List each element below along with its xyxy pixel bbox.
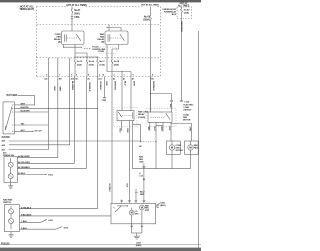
wire: row L3 horizontal to x48.5 — [9, 149, 49, 151]
relay 2 label (left) — [97, 33, 104, 44]
svg-text:(RAD): (RAD) — [136, 244, 142, 247]
wire: switch2 ground lead — [10, 232, 12, 235]
right relay: condenser fan relay box — [148, 112, 172, 122]
fuse D value label — [114, 61, 120, 66]
relay 1 output: left pin to dashed reference arrow — [64, 45, 82, 49]
inline connector terminal (right, end of x181.5 wire) — [180, 100, 183, 103]
svg-text:WHT/YEL: WHT/YEL — [113, 81, 115, 91]
wire: stub between contacts — [10, 167, 12, 174]
junction dot at fuse B — [86, 56, 87, 57]
svg-text:(20A): (20A) — [114, 63, 119, 66]
G301 ground pigtail right of motor box — [156, 203, 160, 207]
svg-text:C BLK: C BLK — [21, 221, 28, 223]
pressure switch contact circle 2 — [8, 174, 13, 179]
wire: battery feed loop into ignition switch — [14, 96, 34, 105]
terminal dot at end of row y131.4 — [32, 131, 33, 132]
fuse 3 inside small box — [181, 7, 183, 19]
top border bar — [0, 0, 201, 2]
connector ticks at x136 — [135, 200, 138, 203]
fuse 2 labels — [143, 15, 150, 21]
junction dot at fuse A — [74, 56, 75, 57]
fan switch contact circle 1 — [9, 209, 14, 214]
fuse B at x87 — [86, 59, 88, 68]
box corner label — [157, 205, 159, 209]
svg-text:A6 YEL/GRN: A6 YEL/GRN — [18, 161, 30, 164]
svg-text:(40A): (40A) — [74, 13, 80, 16]
fuse C at x97.5 — [97, 59, 99, 68]
label: condenser fan motor — [175, 145, 183, 152]
wire: switch2 row A to x97.5 — [19, 208, 97, 210]
wire: feed branch from fuse 2 wire — [151, 93, 172, 95]
svg-text:FAN: FAN — [194, 146, 198, 149]
wire: stub below fan switch contact 2 — [10, 224, 12, 230]
svg-text:LOAD: LOAD — [184, 106, 190, 109]
fuse C value label — [99, 61, 105, 66]
right relay label (right side) — [183, 114, 191, 121]
svg-text:M: M — [189, 146, 192, 150]
label: to A/C compressor — [92, 45, 99, 51]
svg-text:A17: A17 — [59, 78, 62, 81]
wire: branch drop to connector terminal — [171, 94, 173, 101]
wire from top to fuse 1 — [71, 7, 73, 10]
svg-text:GRN: GRN — [105, 81, 107, 86]
wire: ground lead below box at x141.9 — [141, 224, 143, 233]
wire: relay 2 left pin to distribution bus — [107, 45, 131, 72]
svg-text:A4 BLU/RED: A4 BLU/RED — [18, 155, 30, 158]
wire: stub above contact 1 — [10, 158, 12, 162]
wire: switch1 row A1 ground stub — [17, 174, 46, 176]
svg-text:C605: C605 — [139, 161, 144, 163]
wire: branch over to radiator fan motor — [171, 124, 192, 142]
radiator fan switch label — [3, 199, 13, 205]
ignition switch row labels — [21, 103, 30, 132]
condenser fan motor circle M1 — [169, 145, 174, 150]
svg-text:No.16: No.16 — [89, 61, 95, 63]
wire: switch2 row D with ground pigtail — [19, 227, 62, 230]
svg-text:A YEL/BLK: A YEL/BLK — [21, 206, 32, 209]
svg-text:A: A — [152, 74, 154, 77]
radiator fan motor unit box (right) — [185, 141, 199, 154]
svg-text:No.17: No.17 — [99, 61, 105, 63]
wire: YEL/BLK vertical at x97.5 to fan switch — [97, 68, 99, 209]
dashed off-page reference wire — [84, 47, 92, 49]
svg-text:A/C: A/C — [3, 152, 7, 155]
svg-text:BLU: BLU — [153, 127, 155, 132]
svg-text:A19: A19 — [2, 144, 6, 147]
wire: bus drop to fuse C — [97, 57, 99, 59]
wire: BLK/YEL vertical at x48.5 — [48, 58, 50, 150]
wire below small box — [181, 19, 183, 102]
big dashed under-hood fuse/relay box — [37, 7, 161, 77]
svg-text:(10A): (10A) — [77, 63, 82, 66]
svg-text:RELAY: RELAY — [97, 38, 104, 41]
svg-text:YEL/BLK: YEL/BLK — [99, 81, 101, 90]
fuse 1 labels — [74, 9, 81, 19]
connector tick C561 (lower) — [71, 18, 73, 20]
center relay label (right) — [138, 111, 149, 119]
wire below fuse 2 down into box area — [150, 20, 152, 112]
wire: switch2 row B to fan motor box — [19, 215, 111, 217]
wire: terminal into ELD relay top — [171, 102, 173, 112]
relay 1 label (left) — [54, 34, 61, 44]
wire: radiator fan feed at x143.9 — [143, 164, 145, 204]
wire: GRN/BLK vertical at x86.5 — [86, 77, 88, 169]
bottom hairline — [0, 244, 201, 246]
svg-text:2: 2 — [114, 75, 115, 77]
label: G301 — [160, 202, 166, 207]
svg-text:G101: G101 — [64, 227, 70, 229]
wire: relay 1 center pin down to fuse A — [74, 45, 76, 59]
radiator fan motor circle (right) — [188, 145, 193, 150]
relay 2 switch arm — [120, 35, 124, 41]
svg-text:(7.5A): (7.5A) — [99, 63, 105, 66]
wire: bus drop at x122 — [121, 72, 123, 77]
svg-text:SPD: SPD — [135, 214, 139, 216]
pressure switch contact circle 1 — [8, 162, 13, 167]
svg-text:FAN: FAN — [100, 35, 105, 38]
svg-text:A5: A5 — [75, 78, 77, 81]
svg-text:02: 02 — [157, 207, 159, 209]
svg-text:WHT: WHT — [59, 87, 61, 92]
wire: internal bus in motor box — [117, 205, 128, 207]
relay 1 switch arm — [77, 35, 81, 41]
svg-text:B BLU/BLK: B BLU/BLK — [21, 215, 32, 217]
wire: switch1 row A2 to x86.5 — [17, 167, 86, 169]
dashed enclosure around center relay — [114, 107, 138, 127]
wire: motor M2 return to box bottom — [131, 215, 133, 224]
relay 2 internal dashed link — [110, 37, 120, 39]
wire below fuse 1 with connector ticks — [71, 13, 73, 31]
motor circle M3 (upper right) — [140, 205, 145, 210]
A/C pressure switch label — [3, 152, 15, 158]
junction dot on fuse 1 feed — [72, 8, 73, 9]
ignition row y125 — [14, 124, 48, 126]
right relay internal dashed link — [151, 116, 166, 118]
junction dot at fuse C — [97, 56, 98, 57]
svg-text:DETECT: DETECT — [184, 110, 193, 112]
wire: branch to fuse B — [75, 53, 87, 59]
svg-text:ST CUT: ST CUT — [35, 130, 43, 132]
svg-text:5: 5 — [71, 75, 72, 77]
svg-text:MOTOR: MOTOR — [183, 120, 191, 122]
svg-text:F50125: F50125 — [1, 241, 10, 245]
right relay switch arm — [166, 113, 170, 119]
svg-text:1: 1 — [124, 75, 125, 77]
svg-text:No.41: No.41 — [144, 15, 151, 18]
junction dot at relay 1 left pin — [63, 47, 64, 48]
svg-text:C561: C561 — [74, 17, 80, 19]
wire: stub above fan switch contact 1 — [10, 206, 12, 209]
svg-text:RELAY: RELAY — [138, 113, 145, 116]
svg-text:IGN SW: IGN SW — [2, 137, 11, 139]
ground symbol under switch2 — [9, 235, 14, 238]
svg-text:HOT AT ALL TIMES: HOT AT ALL TIMES — [66, 4, 87, 7]
svg-text:C124: C124 — [184, 100, 189, 103]
label left of small dashed box — [162, 9, 176, 16]
wire: bus drop at x131 — [130, 72, 132, 77]
svg-text:BLU: BLU — [118, 129, 120, 134]
ignition row y112 — [14, 111, 48, 113]
terminal number labels below connector row — [44, 78, 153, 81]
svg-text:(15A): (15A) — [184, 12, 189, 15]
svg-text:M: M — [141, 206, 143, 210]
svg-text:(100A): (100A) — [143, 18, 150, 21]
ignition switch arm — [5, 107, 12, 131]
label: BLU/RED wire color — [140, 192, 145, 197]
svg-text:M: M — [171, 146, 174, 150]
svg-text:9: 9 — [133, 75, 134, 77]
relay 1 internal dashed link — [67, 37, 77, 39]
svg-text:M: M — [131, 211, 133, 215]
fuse D at x112 — [111, 59, 113, 68]
svg-text:BLK: BLK — [168, 127, 170, 132]
dashed enclosure around right relay — [146, 108, 176, 126]
wire: vertical at x69.7 to row L2 — [69, 58, 71, 145]
wire: fuse A output to connector row — [74, 68, 76, 77]
wire: stub into radiator fan motor circle — [190, 141, 192, 145]
junction dot at x97.5 on feed row — [97, 108, 98, 109]
svg-text:WHT/GRN: WHT/GRN — [180, 22, 182, 32]
svg-text:C13: C13 — [139, 176, 143, 178]
wire: right relay pin stub at x149.8 — [149, 122, 151, 131]
bottom border bar — [0, 248, 201, 251]
vertical wire color labels — [53, 81, 154, 92]
svg-text:G101: G101 — [48, 175, 54, 177]
right relay label block — [184, 104, 194, 111]
switch pivot dot — [114, 210, 117, 213]
wire: switch1 ground lead — [10, 182, 12, 185]
wire end terminal at x104.5 — [104, 77, 106, 98]
svg-text:A21: A21 — [44, 78, 47, 81]
wire: ELD relay pin stub at x163 — [162, 122, 164, 131]
fuse A value label — [77, 61, 83, 66]
svg-text:(10A): (10A) — [89, 63, 94, 66]
svg-text:RELAY: RELAY — [54, 38, 61, 41]
svg-text:MOTOR: MOTOR — [176, 150, 184, 152]
svg-text:7: 7 — [59, 75, 60, 77]
svg-text:GRN/BLK: GRN/BLK — [88, 82, 90, 92]
motor assembly box — [111, 203, 156, 223]
condenser fan motor unit box — [166, 141, 180, 154]
wire: condenser fan motor return — [171, 150, 173, 168]
wire: ground lead below box at x131.7 — [131, 224, 133, 233]
junction dot at (150.5,93.5) — [150, 93, 151, 94]
ignition switch box — [3, 102, 14, 134]
svg-text:D BLK: D BLK — [21, 228, 28, 230]
wire: ignition BLK/YEL long feed row — [14, 107, 97, 109]
wire: row L2 horizontal to x69.7 — [9, 144, 70, 146]
svg-text:6: 6 — [99, 75, 100, 77]
svg-text:4P: 4P — [139, 145, 142, 148]
tick on x136 area above motor box — [135, 191, 138, 193]
connector ticks at x143.9 — [143, 200, 146, 203]
fuse row: fuse A at x75 — [74, 59, 76, 68]
ground symbol G201 — [134, 236, 140, 239]
terminal dot G101 — [45, 174, 46, 175]
ignition switch internal contacts — [12, 105, 13, 132]
svg-text:8: 8 — [88, 75, 89, 77]
inline connector ticks on x143.9 — [142, 167, 145, 168]
dashed inline connector box below relay 2 — [98, 47, 118, 54]
svg-text:No.15: No.15 — [77, 61, 83, 63]
fuse B value label — [89, 61, 95, 66]
switch contact tick — [113, 207, 115, 208]
svg-text:(COND): (COND) — [138, 117, 145, 119]
svg-text:RAD: RAD — [100, 33, 105, 36]
svg-text:C582: C582 — [102, 100, 107, 102]
svg-text:YEL: YEL — [147, 127, 149, 132]
fan switch contact 2 slash — [9, 219, 12, 222]
ignition switch arm base — [4, 126, 6, 130]
svg-text:WHT/BLU: WHT/BLU — [152, 81, 154, 91]
svg-text:A9: A9 — [87, 78, 89, 81]
wire: right relay pin at x171 to condenser fan motor — [170, 122, 172, 141]
svg-text:TIMES (BAT): TIMES (BAT) — [19, 7, 34, 11]
svg-text:No.42: No.42 — [184, 9, 190, 12]
label: ground G201 — [136, 243, 142, 248]
svg-text:10: 10 — [102, 75, 105, 77]
label: M2 low speed — [135, 211, 139, 215]
fan switch contact circle 2 — [9, 219, 14, 224]
wire: switch1 row A6 to x74.5 — [17, 162, 74, 164]
inline connector arrow on x143.9 — [143, 179, 146, 181]
junction dot on distribution bus — [121, 71, 122, 72]
svg-text:(A): (A) — [58, 41, 61, 44]
junction dot at (156,141.8) — [155, 141, 156, 142]
svg-text:BLK: BLK — [53, 87, 55, 92]
svg-text:FUSE/RELAY: FUSE/RELAY — [164, 10, 177, 13]
svg-text:BAT FEED: BAT FEED — [7, 94, 18, 97]
svg-text:BLK: BLK — [126, 129, 128, 134]
svg-text:RAD FAN: RAD FAN — [3, 199, 13, 202]
horizontal link H y168.6 — [133, 168, 191, 170]
wire: long vertical at far right x198.6 — [198, 31, 200, 248]
svg-text:4: 4 — [46, 74, 48, 77]
junction dot at x48.5 on feed row — [48, 108, 49, 109]
wire: stub into condenser fan motor circle — [171, 141, 173, 145]
svg-text:G101: G101 — [48, 220, 54, 222]
wire: relay 2 coil feed from box edge — [108, 25, 110, 32]
svg-text:RED: RED — [140, 194, 145, 196]
fan switch contact 1 slash — [9, 210, 12, 213]
A/C pressure switch box — [4, 157, 17, 183]
wire: motor M3 return to box bottom — [141, 210, 143, 224]
wire: BLU/RED vertical at x74.5 — [74, 77, 76, 164]
wire: relay 2 right pin step to fuse D — [112, 45, 118, 59]
svg-text:3: 3 — [76, 75, 77, 77]
connector ticks below box at x131.7 — [130, 225, 133, 228]
wire: fuse B output to connector row — [86, 68, 88, 77]
svg-text:(BLK): (BLK) — [160, 205, 166, 207]
svg-text:FAN: FAN — [183, 116, 187, 119]
fuse bus line — [75, 56, 98, 58]
motor circle M2 (lower left) — [129, 210, 134, 215]
wire: right relay pin at x156 down to link bus — [155, 122, 157, 168]
far right: label above small dashed box — [178, 2, 190, 7]
connector ticks below box at x141.9 — [141, 225, 144, 228]
svg-text:A11: A11 — [2, 149, 6, 152]
fuse 2 (100A) symbol — [150, 16, 152, 20]
wire: row L1 long horizontal to x140.6 — [9, 140, 141, 142]
svg-text:BLU/RED: BLU/RED — [71, 81, 73, 91]
wire: switch1 row A4 to x57.8 — [17, 157, 57, 159]
switch arm inside motor box — [116, 206, 122, 211]
wire: ignition row y131.4 — [14, 130, 33, 132]
wire: relay output at x122 to fan control relay — [121, 77, 123, 111]
connector tick C561 (upper) — [71, 15, 73, 17]
inline connector terminal (left) — [170, 100, 173, 103]
svg-text:SWITCH: SWITCH — [3, 202, 12, 204]
svg-text:FAN: FAN — [57, 35, 62, 38]
svg-text:A2 GRN/BLK: A2 GRN/BLK — [18, 166, 30, 169]
svg-text:BLK: BLK — [126, 184, 128, 189]
wire: stub at x136 into motor box — [135, 189, 137, 203]
svg-text:FAN CONT: FAN CONT — [138, 111, 149, 114]
wire: stub between fan switch contacts — [10, 214, 12, 219]
wire labels above motor box — [108, 184, 128, 193]
wire: stub above motor M2 — [131, 208, 133, 211]
svg-text:A1 BLK: A1 BLK — [18, 172, 26, 175]
svg-text:(B): (B) — [101, 42, 104, 44]
junction dot at (127.5,205.9) — [127, 205, 128, 206]
small dashed fuse box (right) — [177, 7, 192, 19]
junction dot at relay 2 feed jog — [106, 27, 107, 28]
center relay internals — [118, 112, 122, 117]
ground symbol under switch1 — [8, 186, 13, 189]
svg-text:BOX: BOX — [172, 14, 177, 16]
wire: drop to ground G201 — [136, 233, 138, 236]
connector ticks at x129.5 — [128, 200, 131, 203]
center relay: fan control relay box — [117, 111, 134, 121]
svg-text:CONN: CONN — [98, 51, 104, 53]
label: radiator fan motor — [145, 204, 150, 212]
svg-text:WHT: WHT — [160, 127, 162, 132]
wire from top to fuse 2 — [150, 7, 152, 16]
relay 1 coil — [63, 34, 65, 41]
radiator fan switch box — [5, 205, 20, 232]
relay 1: condenser fan relay box — [62, 31, 85, 45]
wire: relay output at x131 to fan control relay — [130, 77, 132, 111]
fuse 1 (40A) symbol — [71, 9, 73, 13]
center relay bottom pins — [121, 121, 123, 132]
wire: BLU/WHT vertical at x57.8 — [57, 58, 59, 158]
wire: stub below contact 2 — [10, 179, 12, 183]
wire: fuse D output down to fan motor box — [111, 68, 113, 203]
pin stub with connector ticks at x121.7 — [120, 200, 123, 204]
contact 1 slash — [9, 163, 12, 166]
svg-text:A16: A16 — [2, 139, 6, 142]
relay 2 coil — [107, 34, 109, 41]
svg-text:MTR: MTR — [145, 210, 150, 212]
svg-text:BLU: BLU — [123, 81, 125, 86]
wire: WHT/BLU at x150.5 into ELD relay — [150, 77, 152, 113]
label: hot at all times (left) — [19, 4, 34, 11]
top area — [19, 2, 191, 112]
svg-text:HOT AT ALL TIMES: HOT AT ALL TIMES — [141, 3, 159, 6]
relay 2: radiator fan relay box — [105, 31, 128, 45]
wire: ground merge bar — [132, 232, 142, 234]
contact 2 slash — [9, 175, 12, 178]
svg-text:No.18: No.18 — [114, 61, 120, 63]
relay 2 feed jog from dashed line — [107, 28, 121, 32]
svg-text:BLU/BLK: BLU/BLK — [108, 184, 110, 193]
svg-text:No.47: No.47 — [74, 9, 81, 12]
svg-text:WHT: WHT — [132, 81, 134, 86]
wire: switch2 row C with ground pigtail — [19, 219, 47, 222]
pin labels (vertical) — [147, 127, 191, 132]
svg-text:GRN: GRN — [189, 127, 191, 132]
terminal number labels above connector row — [46, 74, 154, 77]
